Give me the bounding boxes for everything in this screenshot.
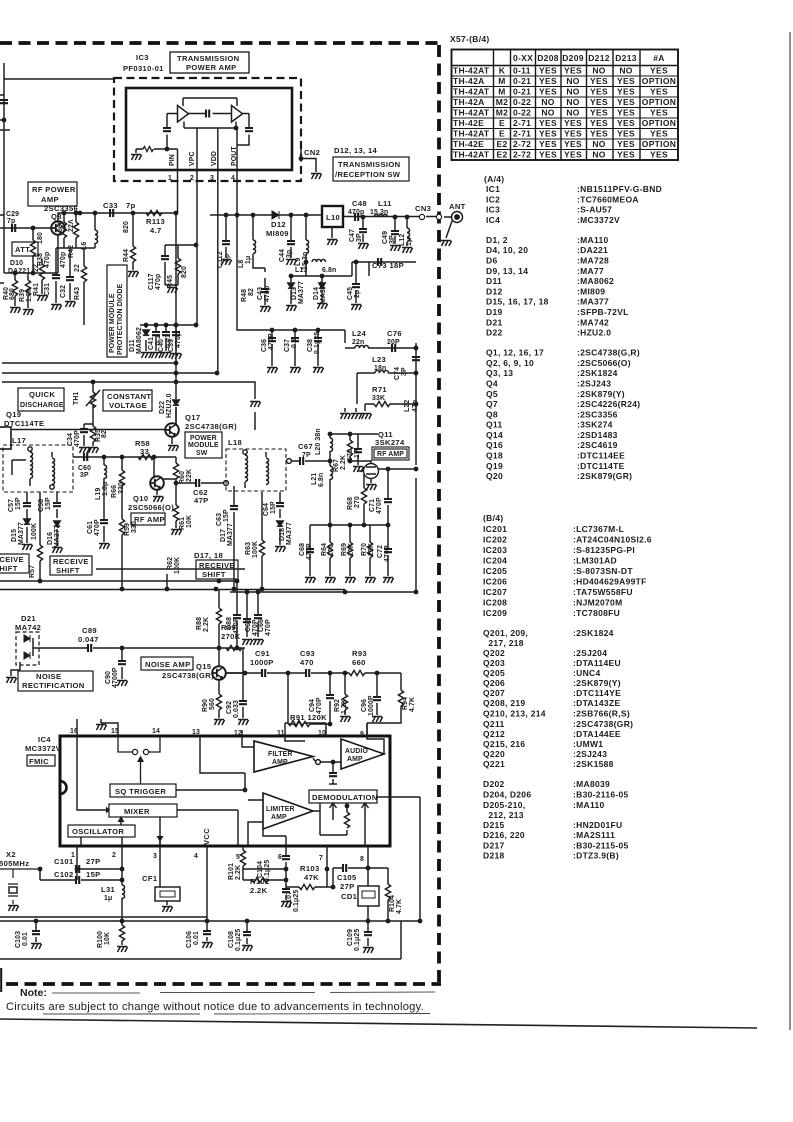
svg-text:C89: C89 (82, 626, 97, 635)
svg-text:L20 38n: L20 38n (315, 428, 322, 455)
svg-text:212, 213: 212, 213 (483, 810, 524, 820)
svg-text:R42: R42 (68, 245, 75, 258)
svg-text:0.1μ25: 0.1μ25 (264, 860, 271, 882)
svg-text:D217: D217 (483, 841, 505, 851)
svg-text:6.8n: 6.8n (318, 473, 325, 487)
svg-text:R69: R69 (341, 543, 348, 556)
svg-text:R91 120K: R91 120K (290, 713, 327, 722)
svg-text::DTC114TE: :DTC114TE (577, 461, 625, 471)
svg-text:TRANSMISSION: TRANSMISSION (338, 160, 400, 169)
svg-text:L10: L10 (326, 213, 340, 222)
demodulation box (309, 790, 377, 803)
svg-text:NO: NO (592, 139, 605, 149)
svg-text:ECEIVE: ECEIVE (0, 555, 24, 564)
pin1 wire (40, 846, 122, 880)
svg-text:4.7K: 4.7K (409, 697, 416, 712)
svg-text:C70: C70 (347, 449, 354, 462)
svg-text:C94: C94 (309, 699, 316, 712)
svg-text:SHIFT: SHIFT (56, 566, 80, 575)
svg-text:R48: R48 (241, 289, 248, 302)
svg-text:470p: 470p (60, 252, 67, 268)
wire noise line (39, 647, 245, 649)
resistor R113 (146, 210, 162, 215)
svg-text:470P: 470P (74, 430, 81, 447)
svg-text:R63: R63 (245, 542, 252, 555)
svg-text::2SK1824: :2SK1824 (577, 368, 618, 378)
svg-text:L17: L17 (12, 436, 26, 445)
svg-text:YES: YES (650, 129, 668, 139)
svg-text:0.1μ25: 0.1μ25 (354, 929, 361, 951)
svg-text:YES: YES (564, 118, 582, 128)
svg-text:YES: YES (564, 66, 582, 76)
svg-text:X2: X2 (6, 850, 16, 859)
svg-text:Q19: Q19 (486, 461, 503, 471)
svg-text:YES: YES (650, 108, 668, 118)
power module SW box (185, 432, 222, 458)
internal resistor (143, 147, 154, 152)
svg-text:C101: C101 (54, 857, 74, 866)
svg-text:VCC: VCC (202, 828, 211, 845)
svg-text:L9: L9 (295, 258, 302, 266)
svg-text::MA2S111: :MA2S111 (573, 830, 615, 840)
component box at left edge (0, 427, 11, 449)
svg-text::MA110: :MA110 (577, 235, 609, 245)
svg-text:C40: C40 (158, 339, 165, 352)
svg-text:R64: R64 (321, 543, 328, 556)
svg-text::2SK1824: :2SK1824 (573, 628, 614, 638)
svg-text:3: 3 (153, 853, 157, 860)
svg-text::LM301AD: :LM301AD (573, 556, 617, 566)
svg-text:C66: C66 (258, 619, 265, 632)
svg-text:2SC4738(GR): 2SC4738(GR) (185, 422, 237, 431)
svg-text:Q17: Q17 (185, 413, 200, 422)
svg-text:OPTION: OPTION (642, 139, 676, 149)
svg-text::TC7808FU: :TC7808FU (573, 608, 620, 618)
receive shift box mid (50, 556, 92, 575)
oscillator box (68, 825, 135, 837)
svg-text:C104: C104 (257, 861, 264, 878)
svg-text:MC3372V: MC3372V (25, 744, 62, 753)
svg-text::DTC114EE: :DTC114EE (577, 451, 625, 461)
wire demod right vertical (419, 797, 421, 921)
svg-text::MA8062: :MA8062 (577, 276, 614, 286)
svg-text:MA377: MA377 (298, 281, 305, 304)
svg-text:IC3: IC3 (486, 205, 500, 215)
svg-text:IC204: IC204 (483, 556, 507, 566)
svg-text:C63: C63 (216, 513, 223, 526)
svg-text:YES: YES (617, 76, 635, 86)
svg-text:C109: C109 (347, 929, 354, 946)
svg-text:15P: 15P (223, 509, 230, 522)
quick discharge box (18, 388, 64, 411)
svg-text:470p: 470p (44, 252, 51, 268)
limiter wires (248, 800, 347, 845)
page right edge line (789, 32, 791, 1030)
svg-text:IC209: IC209 (483, 608, 507, 618)
mixer box (109, 804, 177, 817)
svg-text:22K: 22K (186, 469, 193, 482)
transmission/reception SW box (333, 157, 409, 181)
ground Q17 (168, 446, 179, 452)
table body text (453, 66, 676, 160)
svg-text:C74: C74 (394, 367, 401, 380)
svg-text:YES: YES (539, 118, 557, 128)
svg-text:Q206: Q206 (483, 678, 505, 688)
svg-text:1: 1 (168, 175, 172, 182)
svg-text::UNC4: :UNC4 (573, 668, 600, 678)
svg-text:3P: 3P (80, 472, 89, 479)
wire receive line (73, 456, 176, 458)
svg-text:D22: D22 (486, 328, 503, 338)
amp stage 1 triangle (178, 106, 189, 123)
cap at amp2 output (245, 128, 253, 131)
svg-text:R100: R100 (97, 931, 104, 948)
svg-text:2-72: 2-72 (513, 139, 531, 149)
svg-text:4.7K: 4.7K (396, 899, 403, 914)
svg-text:C68: C68 (299, 543, 306, 556)
svg-text:Q7: Q7 (486, 399, 498, 409)
svg-text:C71: C71 (369, 499, 376, 512)
svg-text:470p: 470p (155, 274, 162, 290)
svg-text:IC202: IC202 (483, 535, 507, 545)
note underline (43, 1013, 430, 1016)
svg-text::S-AU57: :S-AU57 (577, 205, 612, 215)
svg-text:470P: 470P (376, 497, 383, 514)
svg-text:3p: 3p (286, 250, 293, 258)
svg-text:MA377: MA377 (286, 522, 293, 545)
bottom dashed border (6, 982, 441, 986)
svg-text:L31: L31 (101, 885, 116, 894)
svg-text:C65: C65 (245, 619, 252, 632)
svg-text:YES: YES (590, 76, 608, 86)
svg-text:FILTER: FILTER (268, 751, 293, 758)
svg-text:Q10: Q10 (133, 494, 148, 503)
rf amp box Q11 (372, 447, 409, 460)
rf power amp title box (28, 182, 77, 206)
svg-text::2SK879(Y): :2SK879(Y) (577, 389, 625, 399)
svg-text:IC208: IC208 (483, 598, 507, 608)
svg-text::SFPB-72VL: :SFPB-72VL (577, 307, 629, 317)
svg-text:D10: D10 (10, 260, 23, 267)
svg-text:CN3: CN3 (415, 204, 431, 213)
capacitor C60 (84, 453, 87, 461)
svg-text:0.1μ25: 0.1μ25 (235, 929, 242, 951)
ground CN2 (311, 174, 322, 180)
svg-text:2.2K: 2.2K (235, 865, 242, 880)
svg-text:C106: C106 (186, 931, 193, 948)
svg-text:YES: YES (617, 108, 635, 118)
svg-text:2-71: 2-71 (513, 129, 531, 139)
svg-text:AMP: AMP (272, 759, 288, 766)
svg-text:0.01: 0.01 (22, 932, 29, 946)
noise amp box (141, 657, 193, 670)
svg-text:10K: 10K (186, 515, 193, 528)
svg-text:Q3, 13: Q3, 13 (486, 368, 513, 378)
svg-text:10K: 10K (104, 932, 111, 945)
svg-text::MA8039: :MA8039 (573, 779, 610, 789)
svg-text::HZU2.0: :HZU2.0 (577, 328, 611, 338)
svg-text:POWER: POWER (190, 435, 217, 442)
svg-text:6: 6 (278, 854, 282, 861)
svg-text:DA221: DA221 (8, 268, 30, 275)
sq trigger output wire (176, 789, 245, 791)
svg-text:D21: D21 (21, 614, 36, 623)
svg-text:IC4: IC4 (38, 735, 51, 744)
svg-text:15P: 15P (86, 870, 101, 879)
svg-text:Q19: Q19 (6, 410, 21, 419)
svg-text:C49: C49 (382, 231, 389, 244)
wire left feed (0, 63, 114, 273)
svg-text:C72: C72 (377, 545, 384, 558)
svg-text:Q215, 216: Q215, 216 (483, 739, 525, 749)
svg-text:C105: C105 (337, 873, 357, 882)
filter L10 (322, 206, 343, 227)
dashed module boundary IC3 (114, 78, 301, 181)
svg-text::2SK1588: :2SK1588 (573, 759, 614, 769)
svg-text:D216, 220: D216, 220 (483, 830, 525, 840)
svg-text:CN2: CN2 (304, 148, 320, 157)
svg-text:PIN: PIN (169, 154, 176, 166)
svg-text:6.8n: 6.8n (322, 267, 336, 274)
svg-text:270K: 270K (221, 632, 241, 641)
svg-text:OPTION: OPTION (642, 118, 676, 128)
svg-text:4.505MHz: 4.505MHz (0, 859, 29, 868)
svg-text:YES: YES (650, 66, 668, 76)
svg-text:L13: L13 (295, 267, 307, 274)
svg-text:AMP: AMP (347, 756, 363, 763)
svg-text:R61: R61 (179, 517, 186, 530)
svg-text:D4, 10, 20: D4, 10, 20 (486, 245, 528, 255)
svg-text:2-71: 2-71 (513, 118, 531, 128)
demod resistor (344, 812, 349, 828)
svg-text:Q15: Q15 (196, 662, 212, 671)
svg-text::MC3372V: :MC3372V (577, 215, 620, 225)
svg-text:AMP: AMP (271, 814, 287, 821)
svg-text:C93: C93 (300, 649, 315, 658)
diode D12 (272, 211, 279, 219)
squelch switch (132, 749, 137, 754)
svg-text:POWER AMP: POWER AMP (186, 63, 237, 72)
svg-text::MA742: :MA742 (577, 317, 609, 327)
pin wires down (178, 128, 238, 373)
svg-text:2SC4738(GR): 2SC4738(GR) (162, 671, 214, 680)
svg-text:NO: NO (541, 108, 554, 118)
svg-text:7: 7 (319, 855, 323, 862)
svg-text:E: E (499, 129, 505, 139)
rf amp box Q10 (131, 513, 165, 525)
svg-text:YES: YES (617, 97, 635, 107)
svg-text:15P: 15P (270, 501, 277, 514)
svg-text:C92: C92 (226, 701, 233, 714)
svg-text:20P: 20P (387, 339, 400, 346)
svg-text:D15: D15 (11, 529, 18, 542)
svg-text::NB1511PFV-G-BND: :NB1511PFV-G-BND (577, 184, 662, 194)
svg-text:R93: R93 (352, 649, 367, 658)
table header text (513, 53, 665, 63)
svg-text:R70: R70 (361, 543, 368, 556)
svg-text:560: 560 (209, 698, 216, 710)
svg-text:82: 82 (248, 288, 255, 296)
svg-text::S-81235PG-PI: :S-81235PG-PI (573, 545, 635, 555)
grounds row (340, 414, 351, 420)
antenna symbol (444, 212, 463, 239)
svg-text:D22: D22 (159, 401, 166, 414)
svg-text::2SD1483: :2SD1483 (577, 430, 618, 440)
ground L10 (327, 240, 338, 246)
svg-text:2: 2 (112, 852, 116, 859)
svg-text:D209: D209 (562, 53, 584, 63)
svg-text:POWER MODULE: POWER MODULE (109, 293, 116, 353)
svg-text:L12: L12 (399, 234, 406, 246)
svg-text:TRANSMISSION: TRANSMISSION (177, 54, 239, 63)
svg-text:C60: C60 (78, 465, 91, 472)
svg-text:ATT: ATT (15, 245, 30, 254)
svg-text:R57: R57 (29, 565, 36, 578)
svg-text:13: 13 (192, 729, 200, 736)
svg-text:C38: C38 (307, 339, 314, 352)
svg-text:D12, 13, 14: D12, 13, 14 (334, 146, 378, 155)
svg-text:R89: R89 (221, 623, 236, 632)
svg-text::DTZ3.9(B): :DTZ3.9(B) (573, 851, 619, 861)
svg-text:RECTIFICATION: RECTIFICATION (22, 681, 85, 690)
svg-text:SHIFT: SHIFT (202, 570, 226, 579)
svg-text:Q4: Q4 (486, 379, 498, 389)
svg-text::DTC114YE: :DTC114YE (573, 688, 621, 698)
svg-text:8: 8 (360, 856, 364, 863)
svg-text:C41: C41 (148, 337, 155, 350)
svg-text:C58: C58 (38, 499, 45, 512)
svg-text:C64: C64 (263, 503, 270, 516)
svg-text:L11: L11 (378, 199, 392, 208)
svg-text:(B/4): (B/4) (483, 513, 503, 523)
svg-text:MA742: MA742 (15, 623, 41, 632)
receive shift box right (196, 560, 238, 579)
svg-text:1μ: 1μ (245, 256, 252, 264)
svg-text:TH-42AT: TH-42AT (453, 66, 490, 76)
svg-text:Q205: Q205 (483, 668, 505, 678)
svg-text:1μ: 1μ (104, 895, 112, 902)
svg-text:MIXER: MIXER (124, 807, 150, 816)
pin2 wire (121, 846, 123, 921)
wire Q8 collector (4, 213, 176, 273)
svg-text:MA377: MA377 (227, 523, 234, 546)
filter amp triangle (254, 741, 313, 772)
ground for ANT (441, 241, 452, 247)
wire C67 row (289, 460, 330, 462)
svg-text:/RECEPTION SW: /RECEPTION SW (335, 170, 401, 179)
svg-text:L23: L23 (372, 355, 386, 364)
solid module body IC3 (126, 88, 292, 170)
wire lower row (310, 524, 388, 526)
bus wires lower (0, 569, 345, 590)
svg-text:R59: R59 (124, 523, 131, 536)
svg-text:14: 14 (152, 728, 160, 735)
svg-text:CD1: CD1 (341, 892, 358, 901)
svg-text::MA728: :MA728 (577, 256, 609, 266)
svg-text:HZU2.0: HZU2.0 (166, 393, 173, 418)
capacitor C62 (176, 482, 223, 484)
svg-text:Note:: Note: (20, 987, 47, 999)
svg-text:YES: YES (617, 150, 635, 160)
svg-text:YES: YES (590, 87, 608, 97)
svg-text:7p: 7p (7, 218, 15, 225)
svg-text::DA221: :DA221 (577, 245, 608, 255)
svg-text:0-21: 0-21 (513, 76, 531, 86)
svg-text:22: 22 (74, 264, 81, 272)
coupling node (316, 760, 321, 765)
svg-text:IC1: IC1 (486, 184, 500, 194)
svg-text:YES: YES (590, 108, 608, 118)
svg-text:YES: YES (539, 129, 557, 139)
svg-text:TH-42AT: TH-42AT (453, 87, 490, 97)
svg-text:C29: C29 (6, 211, 19, 218)
svg-text:1000P: 1000P (250, 658, 274, 667)
svg-text:100K: 100K (252, 541, 259, 558)
svg-text::2SC5066(O): :2SC5066(O) (577, 358, 631, 368)
svg-text:YES: YES (590, 129, 608, 139)
svg-text::HD404629A99TF: :HD404629A99TF (573, 577, 647, 587)
svg-text:NO: NO (619, 66, 632, 76)
svg-text:820: 820 (181, 266, 188, 278)
svg-text:C45: C45 (347, 287, 354, 300)
sq trigger box (110, 784, 176, 797)
svg-text:TH-42E: TH-42E (453, 118, 484, 128)
svg-text:C103: C103 (15, 931, 22, 948)
svg-text:2-72: 2-72 (513, 150, 531, 160)
svg-text:YES: YES (539, 150, 557, 160)
internal junctions (165, 147, 170, 152)
junction dots on RF line (235, 213, 240, 218)
svg-text:R101: R101 (228, 863, 235, 880)
left page edge segment (0, 968, 2, 992)
svg-text:2p: 2p (354, 290, 361, 298)
svg-text:C67: C67 (298, 442, 313, 451)
svg-text:IC4: IC4 (486, 215, 500, 225)
svg-text::2SC4226(R24): :2SC4226(R24) (577, 399, 640, 409)
top dashed border (0, 41, 441, 45)
svg-text:SQ TRIGGER: SQ TRIGGER (115, 787, 166, 796)
svg-text:Q18: Q18 (486, 451, 503, 461)
svg-text:27P: 27P (340, 882, 355, 891)
svg-text:4.7: 4.7 (150, 226, 162, 235)
svg-text:15P: 15P (45, 497, 52, 510)
wire internal rails (136, 98, 249, 153)
svg-text::2SK879(Y): :2SK879(Y) (573, 678, 621, 688)
svg-text:NO: NO (566, 97, 579, 107)
audio amp triangle (341, 739, 384, 769)
wire audio row (226, 673, 401, 690)
svg-text:IC2: IC2 (486, 194, 500, 204)
main vertical wire (415, 343, 417, 592)
svg-text:(A/4): (A/4) (484, 174, 504, 184)
svg-text:DISCHARGE: DISCHARGE (20, 402, 64, 409)
svg-text:Q11: Q11 (486, 420, 503, 430)
svg-text:M2: M2 (496, 108, 508, 118)
svg-text:CF1: CF1 (142, 874, 158, 883)
svg-text:D11: D11 (129, 339, 136, 352)
svg-text:IC201: IC201 (483, 524, 507, 534)
svg-text:D213: D213 (615, 53, 637, 63)
svg-text:0.033: 0.033 (233, 700, 240, 718)
wire stub left (0, 95, 10, 283)
svg-text:D202: D202 (483, 779, 505, 789)
svg-text:R71: R71 (372, 385, 387, 394)
constant voltage box (103, 390, 152, 411)
svg-text:Q203: Q203 (483, 658, 505, 668)
svg-text:YES: YES (539, 139, 557, 149)
svg-text:QUICK: QUICK (29, 390, 55, 399)
svg-text:NO: NO (566, 76, 579, 86)
